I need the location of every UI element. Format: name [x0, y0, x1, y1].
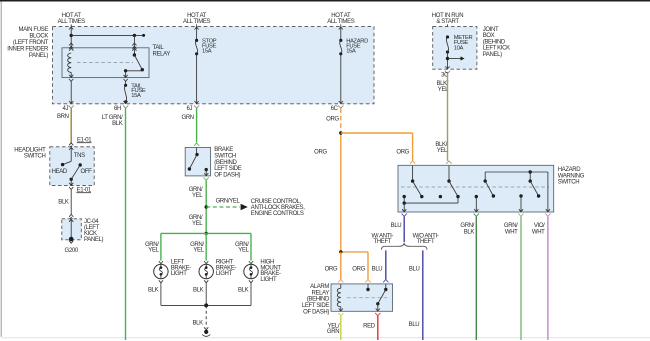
- svg-text:MAIN FUSE: MAIN FUSE: [18, 27, 48, 33]
- svg-text:GRN: GRN: [182, 115, 194, 121]
- svg-text:BLK: BLK: [464, 230, 475, 236]
- svg-text:15A: 15A: [346, 49, 356, 55]
- svg-text:GRN/: GRN/: [460, 223, 474, 229]
- svg-text:LEFT SIDE: LEFT SIDE: [302, 303, 329, 309]
- svg-text:BLU: BLU: [409, 322, 420, 328]
- svg-text:BLU: BLU: [372, 267, 383, 273]
- svg-text:GRN/: GRN/: [504, 223, 518, 229]
- svg-text:VIO/: VIO/: [534, 223, 545, 229]
- svg-text:INNER FENDER: INNER FENDER: [7, 47, 49, 53]
- svg-text:THEFT: THEFT: [417, 239, 435, 245]
- svg-text:BOX: BOX: [483, 33, 495, 39]
- svg-text:BRAKE: BRAKE: [214, 147, 233, 153]
- svg-text:LEFT KICK: LEFT KICK: [483, 46, 510, 52]
- svg-text:RELAY: RELAY: [153, 52, 171, 58]
- svg-text:SWITCH: SWITCH: [214, 154, 236, 160]
- svg-text:4J: 4J: [63, 106, 69, 112]
- svg-text:BLK: BLK: [112, 121, 123, 127]
- svg-text:ANTI-LOCK BRAKES,: ANTI-LOCK BRAKES,: [251, 205, 305, 211]
- svg-text:G200: G200: [65, 248, 79, 254]
- svg-text:BLU: BLU: [391, 223, 402, 229]
- svg-text:GRN/YEL: GRN/YEL: [216, 199, 241, 205]
- svg-text:ORG: ORG: [326, 117, 339, 123]
- svg-text:YEL: YEL: [192, 221, 203, 227]
- svg-text:PANEL): PANEL): [29, 53, 48, 59]
- svg-text:(BEHIND: (BEHIND: [214, 160, 237, 166]
- svg-text:OF DASH): OF DASH): [303, 309, 329, 315]
- svg-text:TAIL: TAIL: [153, 45, 165, 51]
- svg-text:15A: 15A: [202, 49, 212, 55]
- svg-text:ORG: ORG: [325, 267, 338, 273]
- svg-text:ALL TIMES: ALL TIMES: [58, 19, 86, 25]
- svg-text:PANEL): PANEL): [84, 237, 103, 243]
- svg-text:ORG: ORG: [352, 267, 365, 273]
- svg-text:BRN: BRN: [57, 114, 69, 120]
- svg-text:LIGHT: LIGHT: [260, 277, 277, 283]
- svg-text:LIGHT: LIGHT: [216, 271, 233, 277]
- svg-text:OFF: OFF: [81, 169, 93, 175]
- svg-text:LT GRN/: LT GRN/: [102, 115, 123, 121]
- svg-text:CRUISE CONTROL,: CRUISE CONTROL,: [251, 199, 302, 205]
- svg-text:10A: 10A: [454, 46, 464, 52]
- svg-text:BLU: BLU: [409, 267, 420, 273]
- svg-text:ALL TIMES: ALL TIMES: [327, 19, 355, 25]
- svg-text:RED: RED: [363, 323, 376, 329]
- svg-text:BLK: BLK: [193, 320, 204, 326]
- svg-text:BLOCK: BLOCK: [29, 34, 48, 40]
- svg-text:JOINT: JOINT: [483, 27, 499, 33]
- svg-text:SWITCH: SWITCH: [558, 180, 580, 186]
- svg-text:BLK: BLK: [193, 287, 204, 293]
- svg-text:(BEHIND: (BEHIND: [307, 297, 330, 303]
- svg-text:HAZARD: HAZARD: [558, 167, 582, 173]
- svg-text:YEL: YEL: [437, 148, 448, 154]
- svg-text:BLK: BLK: [238, 287, 249, 293]
- svg-text:ENGINE CONTROLS: ENGINE CONTROLS: [251, 211, 304, 217]
- svg-text:6H: 6H: [114, 106, 121, 112]
- svg-text:YEL: YEL: [238, 248, 249, 254]
- svg-text:WHT: WHT: [505, 230, 518, 236]
- svg-text:& START: & START: [436, 19, 459, 25]
- svg-text:LIGHT: LIGHT: [171, 271, 188, 277]
- svg-text:(BEHIND: (BEHIND: [483, 39, 506, 45]
- svg-text:WARNING: WARNING: [558, 173, 585, 179]
- svg-text:THEFT: THEFT: [374, 239, 392, 245]
- svg-text:PANEL): PANEL): [483, 52, 502, 58]
- svg-text:ALARM: ALARM: [310, 284, 329, 290]
- svg-text:YEL: YEL: [193, 248, 204, 254]
- svg-text:HEADLIGHT: HEADLIGHT: [14, 147, 46, 153]
- svg-text:6C: 6C: [331, 106, 339, 112]
- svg-text:GRN: GRN: [327, 329, 339, 335]
- svg-text:YEL: YEL: [192, 193, 203, 199]
- svg-text:ORG: ORG: [314, 149, 327, 155]
- svg-text:YEL: YEL: [148, 248, 159, 254]
- svg-text:OF DASH): OF DASH): [214, 172, 240, 178]
- svg-text:BLK: BLK: [148, 287, 159, 293]
- svg-text:6J: 6J: [187, 106, 193, 112]
- svg-text:LEFT SIDE: LEFT SIDE: [214, 166, 241, 172]
- svg-text:RELAY: RELAY: [312, 290, 330, 296]
- svg-text:TNS: TNS: [74, 153, 85, 159]
- svg-text:ALL TIMES: ALL TIMES: [183, 19, 211, 25]
- svg-text:(LEFT FRONT: (LEFT FRONT: [13, 40, 49, 46]
- svg-text:BLK: BLK: [58, 199, 69, 205]
- svg-text:SWITCH: SWITCH: [24, 153, 46, 159]
- svg-text:HEAD: HEAD: [52, 169, 68, 175]
- svg-text:15A: 15A: [131, 93, 141, 99]
- svg-text:WHT: WHT: [532, 230, 545, 236]
- svg-text:ORG: ORG: [396, 149, 409, 155]
